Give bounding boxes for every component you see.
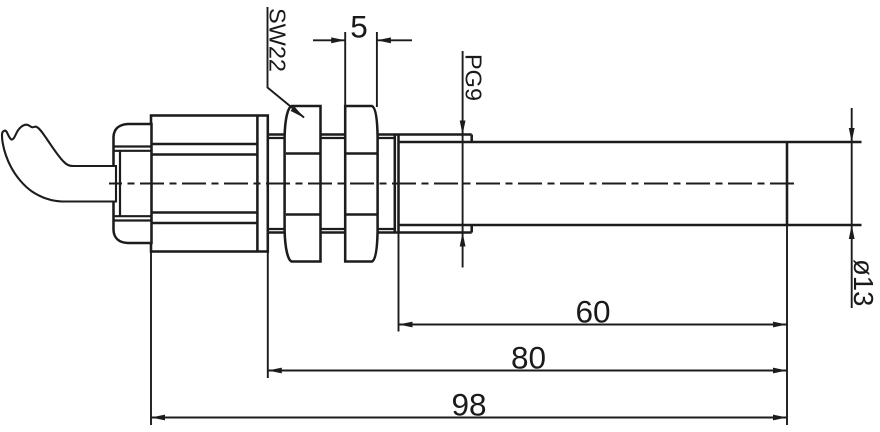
svg-text:80: 80 bbox=[511, 340, 546, 376]
svg-text:PG9: PG9 bbox=[461, 54, 487, 101]
svg-text:98: 98 bbox=[451, 387, 486, 423]
svg-text:SW22: SW22 bbox=[265, 8, 291, 72]
svg-text:5: 5 bbox=[350, 9, 368, 45]
svg-text:ø13: ø13 bbox=[848, 259, 879, 306]
svg-text:60: 60 bbox=[575, 294, 610, 330]
